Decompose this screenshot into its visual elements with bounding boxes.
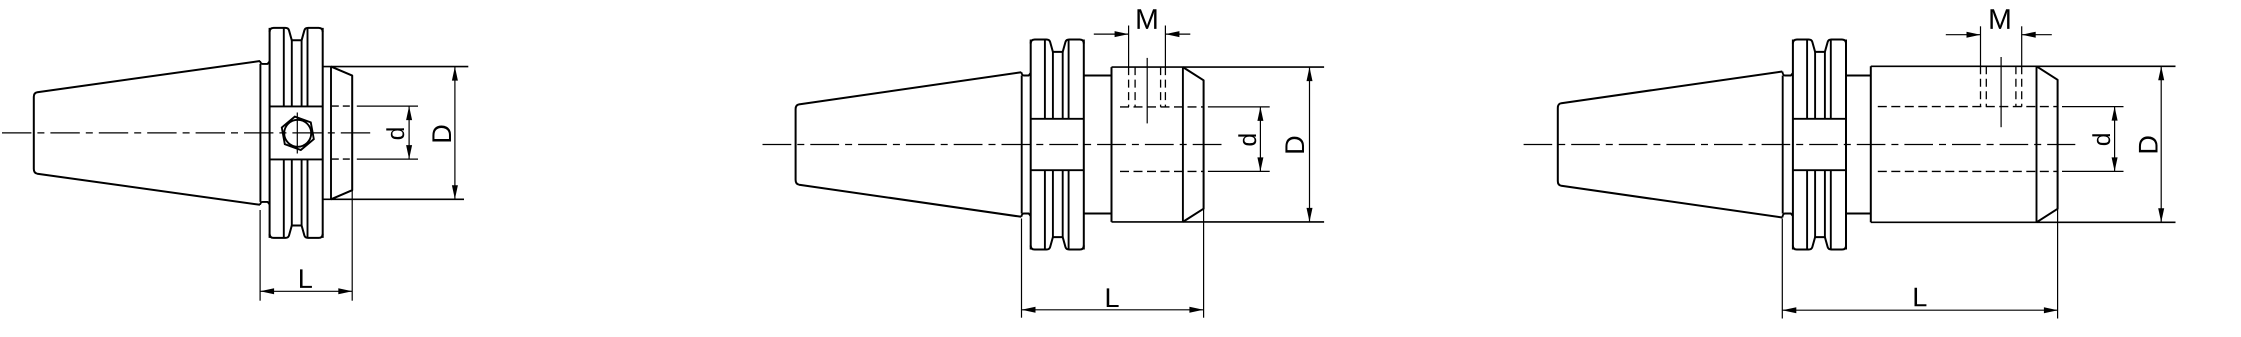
fig2 body left face <box>1111 67 1113 222</box>
fig1 label d <box>386 128 404 139</box>
fig2 relief groove diameter edge <box>1021 76 1023 214</box>
fig3 tapped hole hidden thread lines <box>1980 66 1982 106</box>
fig1 V-groove wall edges <box>291 40 293 106</box>
fig2 neck top edge <box>1084 75 1112 77</box>
fig3 body left face <box>1870 66 1872 222</box>
fig1 dimension L extension lines <box>259 210 261 301</box>
fig3 dimension L extension lines <box>1781 219 1783 319</box>
fig3 body front face with chamfers <box>2037 66 2058 222</box>
fig1 label D <box>432 125 451 141</box>
fig1 relief groove diameter edge <box>259 64 261 202</box>
fig1 hex socket circle <box>284 120 311 147</box>
fig3 dimension L line with arrows <box>1782 309 2058 311</box>
fig3 flange right face <box>1845 40 1847 250</box>
fig2 rib inner edge lines <box>1044 40 1046 119</box>
fig2 flange bottom edge with V-groove <box>1031 237 1084 249</box>
fig2 tapped hole M extension lines <box>1128 26 1130 68</box>
fig1 flange right face <box>322 28 324 238</box>
fig2 centerline <box>763 144 1222 146</box>
fig2 body front face with chamfers <box>1183 67 1204 222</box>
fig1 dimension d line with arrows <box>408 106 410 159</box>
fig2 V-groove wall edges <box>1052 52 1054 119</box>
fig3 flange left face <box>1792 40 1794 250</box>
fig3 neck bottom edge <box>1846 213 1871 215</box>
fig3 rib inner edge lines <box>1806 40 1808 119</box>
fig1 body chamfer start edge <box>330 67 332 200</box>
fig3 flange bottom edge with V-groove <box>1793 237 1846 249</box>
fig1 dimension L line with arrows <box>260 290 352 292</box>
fig3 taper cone outline <box>1558 72 1783 218</box>
fig3 label L <box>1915 288 1927 307</box>
fig3 tapped hole centerline <box>2000 57 2002 127</box>
fig2 body top edge / D extension line <box>1112 66 1325 68</box>
fig1 drive keyway slot edges <box>270 105 323 107</box>
fig2 dimension M line with arrows <box>1094 33 1129 35</box>
fig3 dimension d line with arrows <box>2114 107 2116 172</box>
fig1 flange top edge with V-groove <box>270 28 323 40</box>
fig3 dimension M line with arrows <box>1946 34 1981 36</box>
fig3 relief groove diameter edge <box>1782 76 1784 214</box>
fig1 flange left face <box>269 28 271 238</box>
fig1 flange bottom edge with V-groove <box>270 226 323 238</box>
fig3 dimension d extension lines <box>2062 106 2124 108</box>
fig2 dimension d line with arrows <box>1259 107 1261 171</box>
fig2 flange left face <box>1030 40 1032 250</box>
fig1 dimension D line with arrows <box>454 67 456 200</box>
fig2 drive keyway slot edges <box>1031 118 1084 120</box>
fig3 neck top edge <box>1846 75 1871 77</box>
fig3 body top edge / D extension line <box>1871 65 2176 67</box>
fig3 label D <box>2139 136 2158 152</box>
fig2 label L <box>1107 288 1119 307</box>
fig2 body bottom edge / D extension line <box>1112 221 1325 223</box>
fig1 body front face with chamfers <box>331 67 352 200</box>
fig3 flange top edge with V-groove <box>1793 40 1846 52</box>
fig1 gauge-line relief groove <box>260 61 270 64</box>
fig1 rib inner edge lines <box>283 28 285 107</box>
fig3 label d <box>2092 134 2110 145</box>
fig3 V-groove wall edges <box>1814 52 1816 119</box>
fig2 neck bottom edge <box>1084 213 1112 215</box>
fig2 label d <box>1238 134 1256 145</box>
fig1 hidden bore lines <box>332 105 352 107</box>
fig1 dimension d extension lines <box>357 105 418 107</box>
fig1 label L <box>300 269 312 288</box>
fig3 centerline <box>1524 144 2076 146</box>
fig2 taper cone outline <box>796 72 1022 217</box>
fig1 body top edge / D extension line <box>323 66 469 68</box>
fig2 body chamfer start edge <box>1182 67 1184 222</box>
fig3 label M <box>1990 9 2009 29</box>
fig2 dimension L extension lines <box>1021 219 1023 318</box>
fig3 hidden bore lines <box>1878 106 2058 108</box>
fig3 dimension D line with arrows <box>2160 66 2162 222</box>
fig3 body chamfer start edge <box>2036 66 2038 222</box>
fig2 flange right face <box>1083 40 1085 250</box>
fig1 body bottom edge / D extension line <box>323 198 464 200</box>
fig2 tapped hole hidden thread lines <box>1128 67 1130 107</box>
fig2 dimension d extension lines <box>1208 106 1270 108</box>
fig1 hex socket vertical center mark <box>296 113 298 154</box>
fig1 centerline <box>2 132 371 134</box>
fig2 dimension D line with arrows <box>1309 67 1311 222</box>
fig2 label M <box>1137 9 1156 29</box>
fig1 taper cone outline <box>34 61 260 205</box>
fig3 gauge-line relief groove <box>1782 72 1793 76</box>
fig3 tapped hole M extension lines <box>1980 26 1982 66</box>
fig2 gauge-line relief groove <box>1021 72 1030 75</box>
fig2 flange top edge with V-groove <box>1031 40 1084 52</box>
fig3 body bottom edge / D extension line <box>1871 221 2176 223</box>
fig2 label D <box>1285 137 1304 153</box>
fig2 tapped hole centerline <box>1146 58 1148 124</box>
fig1 hex socket hexagon <box>282 117 314 150</box>
fig2 dimension L line with arrows <box>1022 309 1204 311</box>
fig2 hidden bore lines <box>1120 106 1204 108</box>
fig3 drive keyway slot edges <box>1793 118 1846 120</box>
